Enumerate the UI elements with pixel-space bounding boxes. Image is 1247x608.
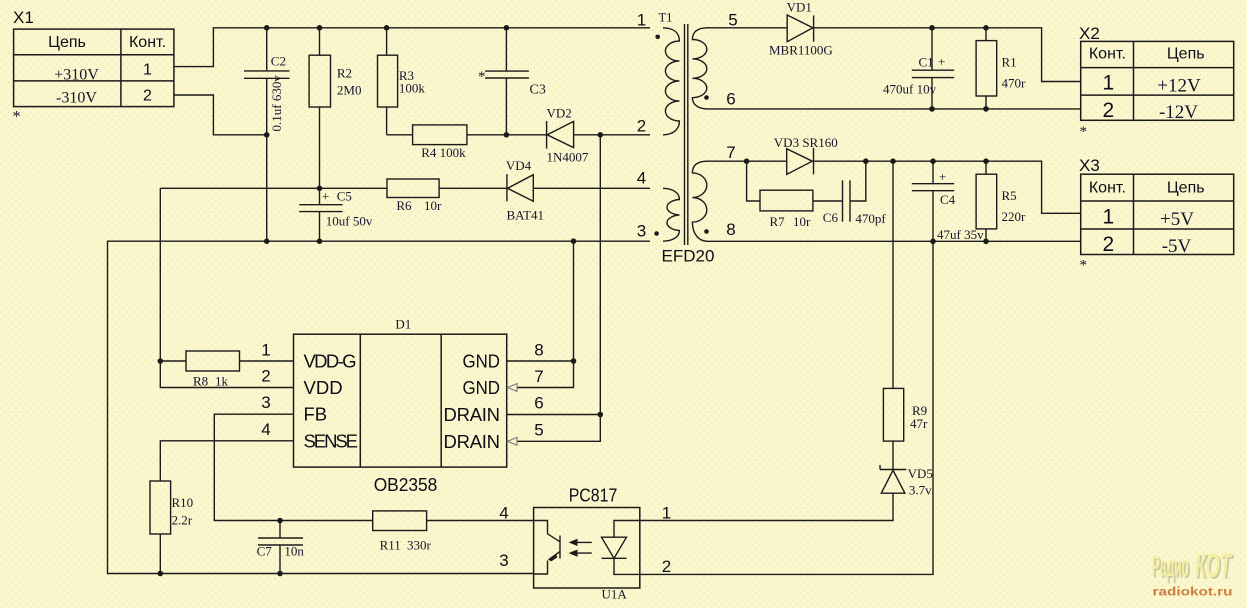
- svg-text:C5: C5: [337, 189, 352, 204]
- svg-text:3: 3: [499, 551, 508, 570]
- svg-text:1: 1: [1103, 72, 1115, 95]
- svg-text:VDD: VDD: [304, 377, 343, 398]
- svg-text:DRAIN: DRAIN: [444, 431, 501, 452]
- svg-text:X2: X2: [1079, 24, 1100, 43]
- svg-text:R5: R5: [1002, 188, 1017, 203]
- svg-text:1: 1: [662, 504, 671, 523]
- svg-text:BAT41: BAT41: [507, 208, 545, 223]
- svg-text:C4: C4: [940, 192, 956, 207]
- svg-text:6: 6: [534, 393, 543, 412]
- svg-text:3: 3: [261, 393, 270, 412]
- svg-text:2: 2: [261, 367, 270, 386]
- svg-text:Конт.: Конт.: [1089, 180, 1126, 197]
- svg-text:0.1uf 630v: 0.1uf 630v: [269, 75, 284, 132]
- svg-text:2: 2: [1103, 233, 1115, 256]
- svg-text:4: 4: [637, 169, 646, 188]
- svg-text:R11: R11: [380, 538, 401, 553]
- svg-text:GND: GND: [463, 377, 501, 398]
- svg-text:EFD20: EFD20: [662, 247, 715, 266]
- svg-text:VD1: VD1: [787, 0, 812, 15]
- svg-text:R2: R2: [337, 66, 352, 81]
- svg-text:Цепь: Цепь: [48, 34, 86, 51]
- svg-text:1N4007: 1N4007: [547, 150, 589, 165]
- svg-text:2.2r: 2.2r: [172, 513, 193, 528]
- svg-text:VD4: VD4: [506, 158, 532, 173]
- svg-text:2: 2: [637, 117, 646, 136]
- svg-text:6: 6: [726, 89, 735, 108]
- svg-text:+12V: +12V: [1157, 75, 1201, 96]
- svg-text:T1: T1: [659, 11, 673, 25]
- svg-text:10uf 50v: 10uf 50v: [326, 214, 373, 229]
- svg-text:R1: R1: [1002, 55, 1017, 70]
- svg-text:-310V: -310V: [56, 90, 97, 107]
- svg-text:7: 7: [534, 367, 543, 386]
- svg-text:C1: C1: [919, 55, 934, 70]
- svg-text:47uf 35v: 47uf 35v: [937, 227, 984, 242]
- svg-text:10r: 10r: [793, 214, 811, 229]
- svg-text:КОТ: КОТ: [1195, 547, 1233, 585]
- svg-text:R6: R6: [396, 198, 412, 213]
- svg-text:220r: 220r: [1002, 209, 1027, 224]
- svg-text:*: *: [478, 69, 486, 85]
- svg-text:10r: 10r: [424, 198, 442, 213]
- svg-text:Конт.: Конт.: [129, 34, 166, 51]
- svg-text:VD3 SR160: VD3 SR160: [774, 135, 838, 150]
- svg-text:330r: 330r: [407, 538, 432, 553]
- svg-text:2: 2: [1103, 99, 1115, 122]
- svg-text:470r: 470r: [1002, 76, 1027, 91]
- svg-text:PC817: PC817: [569, 485, 618, 506]
- svg-text:C6: C6: [823, 210, 839, 225]
- svg-text:470pf: 470pf: [855, 211, 886, 226]
- svg-text:Радио: Радио: [1152, 550, 1189, 583]
- svg-text:VD2: VD2: [547, 106, 572, 121]
- svg-text:R4 100k: R4 100k: [421, 145, 466, 160]
- svg-text:8: 8: [726, 220, 735, 239]
- svg-text:10n: 10n: [284, 544, 304, 559]
- svg-text:radiokot.ru: radiokot.ru: [1153, 587, 1233, 599]
- svg-text:3.7v: 3.7v: [909, 483, 932, 498]
- svg-text:VD5: VD5: [908, 466, 933, 481]
- svg-text:4: 4: [261, 420, 270, 439]
- svg-text:SENSE: SENSE: [304, 430, 359, 451]
- svg-text:+: +: [938, 54, 945, 69]
- svg-text:GND: GND: [463, 351, 501, 372]
- svg-text:C2: C2: [271, 54, 286, 69]
- svg-text:2: 2: [143, 88, 152, 105]
- svg-text:*: *: [13, 109, 21, 126]
- svg-text:+5V: +5V: [1160, 209, 1194, 230]
- svg-text:5: 5: [728, 11, 737, 30]
- svg-text:C3: C3: [530, 83, 546, 98]
- svg-text:+: +: [939, 169, 946, 184]
- svg-text:+310V: +310V: [54, 67, 99, 84]
- svg-text:2M0: 2M0: [337, 83, 362, 98]
- svg-text:1: 1: [1103, 205, 1115, 228]
- svg-text:Конт.: Конт.: [1089, 46, 1126, 63]
- svg-text:*: *: [1080, 258, 1088, 274]
- svg-text:VDD-G: VDD-G: [304, 351, 357, 372]
- svg-text:Цепь: Цепь: [1167, 180, 1205, 197]
- svg-text:MBR1100G: MBR1100G: [769, 43, 833, 58]
- svg-text:-12V: -12V: [1159, 102, 1198, 123]
- svg-text:DRAIN: DRAIN: [444, 404, 501, 425]
- svg-text:7: 7: [726, 143, 735, 162]
- svg-text:470uf 10v: 470uf 10v: [883, 82, 937, 97]
- svg-text:1: 1: [143, 62, 152, 79]
- svg-text:X1: X1: [13, 8, 34, 27]
- svg-text:5: 5: [534, 420, 543, 439]
- svg-text:R8: R8: [193, 374, 208, 389]
- svg-text:D1: D1: [395, 317, 411, 332]
- svg-text:C7: C7: [257, 544, 273, 559]
- svg-text:1: 1: [261, 340, 270, 359]
- svg-text:FB: FB: [304, 404, 328, 425]
- svg-text:X3: X3: [1079, 156, 1100, 175]
- svg-text:8: 8: [534, 340, 543, 359]
- svg-text:R10: R10: [172, 495, 194, 510]
- svg-text:1: 1: [637, 11, 646, 30]
- svg-text:47r: 47r: [910, 416, 928, 431]
- svg-text:4: 4: [499, 504, 508, 523]
- svg-text:-5V: -5V: [1162, 236, 1192, 257]
- svg-text:1k: 1k: [215, 374, 229, 389]
- svg-text:U1A: U1A: [602, 587, 628, 602]
- svg-text:100k: 100k: [399, 80, 426, 95]
- svg-text:2: 2: [662, 557, 671, 576]
- svg-text:3: 3: [637, 222, 646, 241]
- svg-text:Цепь: Цепь: [1167, 46, 1205, 63]
- svg-text:R7: R7: [770, 214, 786, 229]
- svg-text:+: +: [322, 189, 329, 204]
- svg-text:OB2358: OB2358: [374, 474, 438, 495]
- svg-text:*: *: [1080, 124, 1088, 140]
